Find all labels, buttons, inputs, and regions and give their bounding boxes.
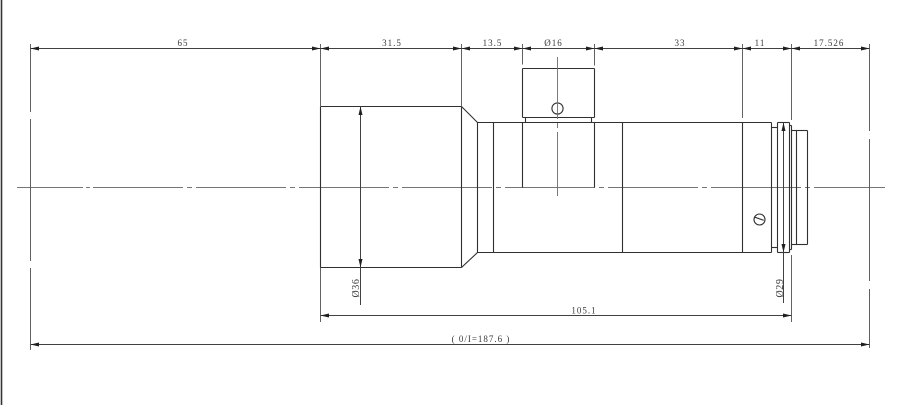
extension line flange	[791, 44, 793, 120]
block hole circle	[552, 103, 563, 114]
centerline main axis	[17, 187, 885, 189]
arrow d16 left	[523, 47, 532, 51]
svg-text:65: 65	[178, 38, 189, 48]
extension line joint 742	[742, 44, 744, 118]
arrow 31.5 right	[453, 47, 462, 51]
arrow 65 left	[31, 47, 40, 51]
arrow 17.526 right	[861, 47, 870, 51]
105.1 dimension line	[321, 315, 792, 317]
tube bottom edge	[478, 252, 772, 254]
groove left edge	[771, 123, 773, 253]
svg-text:33: 33	[675, 38, 686, 48]
big cylinder rear face	[461, 107, 463, 268]
arrow d36 top	[359, 107, 363, 116]
arrow d36 bottom	[359, 259, 363, 268]
ring rear face	[789, 123, 791, 253]
joint rear tube	[742, 123, 744, 253]
joint mid tube	[622, 123, 624, 253]
svg-text:105.1: 105.1	[571, 306, 596, 316]
svg-text:17.526: 17.526	[814, 38, 845, 48]
svg-text:13.5: 13.5	[483, 38, 503, 48]
arrow d29 top	[782, 123, 786, 132]
big cylinder front face	[320, 107, 322, 268]
groove bottom bottom	[772, 247, 778, 249]
rear end face	[807, 131, 809, 245]
extension line image plane	[869, 44, 871, 348]
extension line flange lower	[791, 255, 793, 322]
svg-text:Ø16: Ø16	[544, 38, 563, 48]
block centerline	[557, 57, 559, 196]
top dimension line	[31, 48, 870, 50]
frame left border	[1, 0, 3, 405]
extension line block left	[522, 44, 524, 65]
overall dimension line	[31, 344, 870, 346]
joint upper half left of block	[522, 123, 524, 188]
ring bottom edge	[778, 252, 790, 254]
extension line cylinder rear	[461, 44, 463, 106]
block base ledge	[523, 117, 595, 119]
arrow 11 right	[783, 47, 792, 51]
arrow 33 right	[734, 47, 743, 51]
big cylinder bottom edge	[321, 267, 462, 269]
arrow overall right	[861, 343, 870, 347]
big cylinder top edge	[321, 106, 462, 108]
svg-text:Ø29: Ø29	[775, 278, 786, 297]
svg-text:Ø36: Ø36	[351, 278, 362, 297]
block left side	[522, 69, 524, 118]
ring top edge	[778, 122, 790, 124]
dia36 dimension line	[360, 107, 362, 306]
tube top edge	[478, 122, 772, 124]
arrow 13.5 left	[462, 47, 471, 51]
block right side	[594, 69, 596, 118]
arrow d29 bottom	[782, 244, 786, 253]
arrow d16 right	[586, 47, 595, 51]
set screw circle	[754, 214, 765, 225]
arrow overall left	[31, 343, 40, 347]
extension line object plane	[30, 44, 32, 350]
set screw slot	[755, 217, 764, 220]
flange face	[791, 126, 793, 250]
taper top	[462, 107, 478, 123]
joint ring	[493, 123, 495, 253]
arrow 105.1 left	[321, 314, 330, 318]
extension line front face	[320, 44, 322, 106]
svg-text:31.5: 31.5	[382, 38, 402, 48]
extension line front face lower	[320, 268, 322, 323]
block foot left	[525, 118, 527, 123]
taper bottom	[462, 253, 478, 268]
arrow 31.5 left	[321, 47, 330, 51]
groove bottom top	[772, 127, 778, 129]
arrow 13.5 right	[514, 47, 523, 51]
joint upper half right of block	[594, 123, 596, 188]
rear cylinder bottom edge	[792, 244, 808, 246]
flange ledge bottom	[790, 249, 792, 251]
rear cylinder joint	[796, 131, 798, 245]
joint at taper end	[477, 123, 479, 253]
svg-text:( 0/I=187.6 ): ( 0/I=187.6 )	[452, 334, 511, 344]
arrow 17.526 left	[792, 47, 801, 51]
arrow 105.1 right	[783, 314, 792, 318]
groove right edge	[777, 123, 779, 253]
block foot right	[591, 118, 593, 123]
block top edge	[523, 68, 595, 70]
rear cylinder top edge	[792, 130, 808, 132]
dia29 dimension line	[783, 123, 785, 304]
arrow 33 left	[595, 47, 604, 51]
extension line block right	[594, 44, 596, 66]
arrow 65 right	[312, 47, 321, 51]
flange ledge top	[790, 125, 792, 127]
svg-text:11: 11	[755, 38, 766, 48]
arrow 11 left	[743, 47, 752, 51]
